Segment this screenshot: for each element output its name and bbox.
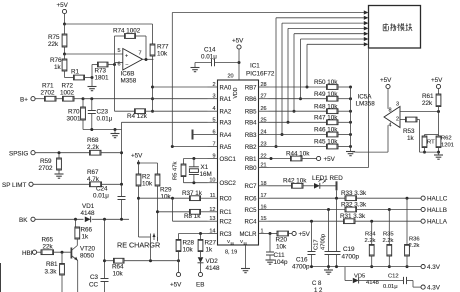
node RA1 branch: [151, 97, 154, 100]
crystal X1 16M: [189, 159, 212, 183]
ground R1 junction: [88, 78, 97, 91]
resistor R81 3.3k: [45, 252, 65, 292]
pin 6 RA4: [208, 130, 232, 139]
svg-text:IC6B: IC6B: [121, 71, 135, 78]
op-amp U3 IC5A LM358: [356, 94, 401, 129]
resistor R64 10k: [105, 258, 181, 277]
svg-text:RC0: RC0: [220, 197, 233, 203]
pin 7 RA5: [208, 142, 232, 151]
svg-text:18: 18: [261, 181, 267, 187]
ground bottom rail: [324, 267, 333, 275]
resistor R61 22k: [422, 93, 441, 135]
svg-text:5: 5: [212, 117, 215, 123]
svg-text:14: 14: [209, 229, 215, 235]
svg-text:C11: C11: [274, 252, 286, 259]
svg-text:0.01μ: 0.01μ: [383, 284, 398, 290]
svg-text:R73: R73: [95, 68, 107, 75]
bus wire RB0/21 from module bottom: [269, 48, 369, 168]
svg-text:RC4: RC4: [244, 220, 257, 226]
power +5V (R44): [317, 156, 336, 163]
svg-text:EB: EB: [196, 282, 204, 289]
svg-text:SPSIG: SPSIG: [9, 150, 28, 157]
svg-text:R59: R59: [40, 158, 52, 165]
svg-text:VD2: VD2: [206, 258, 219, 265]
resistor R45 10k: [269, 139, 353, 149]
wire OSC2 row: [184, 181, 208, 184]
resistor R1: [65, 69, 93, 80]
pin 27 RB6: [245, 94, 269, 103]
wire RA3 row: [122, 122, 208, 129]
node +5V rail top-left: [63, 23, 66, 26]
svg-text:7: 7: [212, 142, 215, 148]
svg-text:RA2: RA2: [220, 110, 232, 116]
svg-text:C 8: C 8: [312, 281, 322, 287]
capacitor C17 4700p: [314, 210, 333, 269]
wire B+ row to RA1: [83, 97, 208, 100]
svg-text:1: 1: [261, 229, 264, 235]
bar mark LED end: [336, 181, 338, 198]
svg-text:C24: C24: [96, 186, 108, 193]
pin 16 RC5: [244, 205, 268, 214]
svg-text:13: 13: [209, 216, 215, 222]
svg-text:RC3: RC3: [220, 232, 233, 238]
svg-text:RB5: RB5: [245, 110, 257, 116]
svg-text:4148: 4148: [81, 210, 96, 217]
svg-text:C16: C16: [296, 257, 308, 264]
pin 14 RC3: [208, 229, 233, 238]
wire RA3 column: [120, 130, 123, 185]
svg-text:2.2k: 2.2k: [365, 238, 376, 244]
svg-text:ss: ss: [244, 242, 248, 246]
node R29 to RC1 row: [156, 210, 159, 213]
wire IC5A pin4 ground: [352, 125, 388, 152]
node C3 rail: [103, 259, 106, 262]
wire left edge mark: [0, 263, 2, 292]
svg-text:1201: 1201: [441, 143, 454, 149]
svg-text:1 2: 1 2: [314, 288, 323, 292]
svg-text:MCLR: MCLR: [239, 232, 257, 238]
svg-text:RB2: RB2: [245, 145, 257, 151]
svg-text:+5V: +5V: [131, 153, 143, 160]
svg-text:1k: 1k: [206, 247, 214, 254]
svg-text:11: 11: [210, 193, 216, 199]
svg-text:R28: R28: [183, 240, 195, 247]
svg-text:VDD: VDD: [233, 87, 239, 98]
svg-text:C23: C23: [97, 109, 109, 116]
terminal 4.3V (lower): [421, 285, 441, 292]
svg-text:4148: 4148: [206, 265, 221, 272]
capacitor C12 0.01u: [383, 274, 421, 291]
svg-text:+5V: +5V: [232, 38, 244, 45]
node op-amp IC6B inverting input: [113, 63, 116, 66]
capacitor C24 0.01u: [93, 184, 126, 219]
wire op-amp pin5 input: [65, 53, 123, 55]
pin 3 RA1: [208, 94, 232, 103]
svg-text:28: 28: [261, 82, 267, 88]
wire pin6 node column: [115, 36, 123, 111]
terminal HBK: [22, 250, 41, 257]
resistor R71 2702: [41, 83, 63, 102]
svg-text:RB1: RB1: [245, 157, 257, 163]
svg-text:RB3: RB3: [245, 133, 257, 139]
wire RC3 row: [179, 232, 208, 235]
svg-text:RA0: RA0: [220, 85, 232, 91]
jumper 1+1 recharge: [139, 198, 158, 261]
pin 13 RC2: [208, 216, 233, 225]
svg-text:2702: 2702: [39, 165, 54, 172]
svg-text:21: 21: [261, 163, 267, 169]
svg-text:HALLA: HALLA: [427, 219, 448, 226]
resistor R73 1801: [92, 62, 115, 81]
pin 2 RA0: [208, 82, 232, 91]
power +5V (bottom): [170, 261, 182, 289]
resistor R37 1k: [182, 190, 208, 201]
resistor R2 10k: [136, 174, 153, 199]
pin 21 RB0: [245, 163, 269, 172]
svg-text:12: 12: [209, 207, 215, 213]
svg-text:26: 26: [261, 106, 267, 112]
svg-text:10: 10: [209, 178, 215, 184]
svg-text:R64: R64: [112, 264, 124, 271]
svg-text:16: 16: [261, 205, 267, 211]
wire +5V rail to R77 column: [65, 24, 153, 44]
pin 17 RC6: [244, 193, 268, 202]
terminal HALLA: [421, 219, 448, 226]
bus wire RB4/25 to module: [287, 26, 369, 124]
resistor R62 1201: [436, 135, 454, 154]
svg-text:RA3: RA3: [220, 121, 232, 127]
resistor R67 4.7k: [87, 169, 123, 187]
svg-text:7: 7: [139, 51, 142, 57]
resistor R77 10k (pull-up): [150, 44, 169, 60]
power +5V (MCLR): [292, 231, 311, 238]
svg-text:2: 2: [212, 82, 215, 88]
resistor R42 10k: [269, 178, 314, 189]
resistor R32 3.3k: [269, 202, 422, 212]
resistor R46 10k: [269, 127, 353, 137]
resistor R68 2.2k: [87, 137, 122, 155]
svg-text:RB6: RB6: [245, 97, 257, 103]
svg-text:B+: B+: [20, 97, 28, 104]
svg-text:R27: R27: [205, 240, 217, 247]
resistor R8 1k: [158, 209, 208, 220]
svg-text:4.3V: 4.3V: [427, 264, 441, 271]
svg-text:8: 8: [389, 108, 392, 114]
node RA0 branch: [151, 86, 154, 89]
bus wire RB2/23 to module: [275, 16, 369, 148]
svg-text:22: 22: [261, 154, 267, 160]
svg-text:IC1: IC1: [250, 63, 260, 70]
resistor R70 3001: [67, 99, 86, 130]
svg-text:RC6: RC6: [244, 197, 257, 203]
resistor R66 1k: [75, 219, 93, 243]
IC U1 PIC16F72: [218, 63, 275, 246]
svg-text:4700p: 4700p: [342, 254, 360, 261]
svg-text:1k: 1k: [407, 135, 415, 142]
capacitor C23 0.01u: [88, 99, 113, 130]
svg-text:RB0: RB0: [245, 166, 257, 172]
svg-text:R53: R53: [403, 128, 415, 135]
diode VD2 4148: [198, 257, 221, 272]
svg-text:24: 24: [261, 130, 267, 136]
resistor R33 3.3k: [269, 190, 422, 200]
svg-text:R67: R67: [87, 169, 99, 176]
svg-text:R20: R20: [276, 237, 288, 244]
transistor VT20 8050: [71, 244, 95, 292]
pin 24 RB3: [245, 130, 269, 139]
svg-text:R35: R35: [383, 232, 394, 238]
svg-text:C3: C3: [90, 274, 99, 281]
svg-text:1801: 1801: [95, 75, 110, 82]
bar mark RA4: [193, 130, 208, 140]
svg-text:RB4: RB4: [245, 121, 257, 127]
svg-text:R68: R68: [87, 137, 99, 144]
svg-text:IC5A: IC5A: [358, 94, 373, 101]
resistor R74 1002 (feedback): [113, 28, 146, 60]
svg-text:+5V: +5V: [431, 77, 443, 84]
svg-text:2.2k: 2.2k: [383, 238, 394, 244]
svg-text:RT: RT: [427, 140, 435, 146]
resistor R49 10k: [269, 91, 353, 101]
svg-text:6: 6: [212, 130, 215, 136]
svg-text:4700p: 4700p: [292, 264, 310, 271]
svg-text:2702: 2702: [41, 90, 56, 97]
resistor R48 10k: [269, 103, 353, 113]
svg-text:R1: R1: [71, 69, 80, 76]
svg-text:RA4: RA4: [220, 133, 232, 139]
node R75/R76 junction: [63, 53, 66, 56]
capacitor C11 104p: [266, 234, 289, 267]
bus wire RB6/27 to module: [299, 37, 368, 100]
resistor R47 10k: [269, 115, 353, 125]
svg-text:R75: R75: [48, 34, 60, 41]
resistor R27 1k: [198, 234, 216, 258]
svg-text:R65: R65: [42, 237, 54, 244]
terminal BK: [19, 217, 84, 224]
terminal 4.3V (upper): [421, 264, 441, 271]
svg-text:+5V: +5V: [299, 231, 311, 238]
svg-text:R62: R62: [441, 136, 452, 142]
resistor R29 10k: [139, 163, 173, 212]
resistor R72 1002: [60, 83, 83, 102]
pin 10 OSC2: [208, 178, 237, 187]
ground Vss pins 8 19: [225, 245, 250, 273]
svg-text:0.01μ: 0.01μ: [97, 116, 113, 123]
pin 1 MCLR: [239, 229, 268, 238]
wire RC2 row: [173, 220, 208, 222]
svg-text:10k: 10k: [113, 271, 124, 278]
svg-text:RB7: RB7: [245, 85, 257, 91]
svg-text:+5V: +5V: [170, 282, 182, 289]
power +5V (chip VDD): [232, 38, 244, 63]
svg-text:R70: R70: [68, 109, 80, 116]
svg-text:R77: R77: [157, 44, 169, 51]
svg-text:VD5: VD5: [354, 274, 365, 280]
terminal EB: [196, 268, 204, 289]
pin 25 RB4: [245, 117, 269, 126]
svg-text:3: 3: [212, 94, 215, 100]
svg-text:17: 17: [261, 193, 267, 199]
svg-text:R66: R66: [81, 227, 93, 234]
capacitor C19 4700p: [333, 198, 360, 268]
svg-text:R34: R34: [365, 232, 376, 238]
svg-text:R76: R76: [50, 57, 62, 64]
svg-text:23: 23: [261, 142, 267, 148]
svg-text:10k: 10k: [142, 181, 153, 188]
bus wire RB7/28 to module: [306, 42, 369, 88]
svg-text:BK: BK: [19, 217, 28, 224]
svg-text:PIC16F72: PIC16F72: [246, 71, 275, 78]
wire op-amp IC6B output: [143, 58, 154, 61]
resistor R35 2.2k: [383, 210, 394, 269]
svg-text:1k: 1k: [82, 234, 90, 241]
resistor R20 10k: [276, 231, 293, 250]
svg-text:1002: 1002: [60, 90, 75, 97]
bus wire RB3/24 to module: [281, 21, 369, 136]
svg-text:0.01μ: 0.01μ: [93, 193, 109, 200]
svg-text:4: 4: [212, 106, 215, 112]
svg-text:4.3V: 4.3V: [427, 285, 441, 292]
svg-text:4700p: 4700p: [321, 234, 327, 250]
svg-text:R29: R29: [160, 187, 172, 194]
op-amp U2 IC6B M358: [118, 48, 143, 85]
svg-text:+5V: +5V: [57, 2, 69, 9]
resistor R75 22k: [48, 24, 67, 54]
resistor R34 2.2k: [365, 221, 377, 268]
svg-text:15: 15: [261, 216, 267, 222]
svg-text:22k: 22k: [48, 41, 59, 48]
capacitor C16 4700p: [292, 221, 316, 270]
svg-text:VT20: VT20: [80, 246, 96, 253]
svg-text:3001: 3001: [67, 116, 82, 123]
svg-text:RC2: RC2: [220, 220, 233, 226]
resistor R59 2702: [39, 153, 62, 174]
ground pull-up bus: [346, 152, 355, 156]
wire RC0-RC2 tie column: [172, 198, 174, 221]
svg-text:RC7: RC7: [244, 184, 257, 190]
svg-text:R61: R61: [422, 93, 434, 100]
pin 5 RA3: [208, 117, 232, 126]
wire IC5A pin3 input: [400, 110, 440, 113]
svg-text:1k: 1k: [54, 64, 62, 71]
svg-text:10k: 10k: [161, 194, 172, 201]
ground R59: [55, 174, 64, 178]
svg-text:CC: CC: [89, 282, 99, 289]
terminal SP LIMT: [2, 182, 90, 189]
pin 4 RA2: [208, 106, 232, 115]
ground divider rail: [111, 130, 120, 138]
svg-text:R2: R2: [142, 174, 151, 181]
node R2 to RC0 row: [137, 197, 140, 200]
diode VD5 4148: [353, 274, 404, 287]
wire pull-up common bus: [350, 87, 352, 151]
node R1/R73 junction: [91, 76, 94, 79]
svg-text:X1: X1: [201, 164, 209, 171]
svg-text:VD1: VD1: [82, 203, 95, 210]
bus wire RB5/26 to module: [293, 32, 369, 113]
svg-text:8, 19: 8, 19: [225, 250, 237, 256]
svg-text:RC5: RC5: [244, 208, 257, 214]
wire RT/R62 bottom: [420, 151, 439, 153]
svg-text:SP LIMT: SP LIMT: [2, 182, 27, 189]
svg-text:C14: C14: [204, 47, 216, 54]
pin 28 RB7: [245, 82, 269, 91]
svg-text:C17: C17: [314, 239, 320, 250]
svg-text:9: 9: [212, 154, 215, 160]
power +5V (mid left): [131, 153, 143, 175]
svg-text:25: 25: [261, 117, 267, 123]
node R70 tap: [82, 97, 85, 100]
wire 4.3V rail: [312, 266, 422, 268]
svg-text:M358: M358: [121, 78, 137, 85]
terminal B+: [20, 97, 45, 104]
wire RC0 row: [139, 197, 190, 200]
pin 23 RB2: [245, 142, 269, 151]
ground RT/R62: [434, 152, 443, 159]
svg-text:C19: C19: [343, 246, 355, 253]
power +5V (R61): [431, 77, 443, 94]
svg-text:OSC2: OSC2: [220, 181, 237, 187]
svg-text:2: 2: [396, 117, 399, 123]
text RE CHARGR: [117, 241, 160, 250]
svg-text:3: 3: [396, 102, 399, 108]
resistor R36 2.2k: [405, 198, 420, 268]
wire OSC1 row: [184, 157, 208, 160]
pin 26 RB5: [245, 106, 269, 115]
wire lower 4.3V rail: [345, 267, 352, 281]
svg-text:4: 4: [389, 123, 392, 129]
svg-text:LED1 RED: LED1 RED: [312, 175, 343, 182]
terminal SPSIG: [9, 150, 90, 157]
svg-text:10k: 10k: [276, 244, 287, 251]
capacitor C14 0.01u: [195, 47, 239, 67]
svg-text:+: +: [125, 54, 128, 60]
LED LED1 RED: [312, 175, 343, 189]
resistor R53 1k: [400, 117, 420, 152]
svg-text:HALLB: HALLB: [427, 207, 447, 214]
pin 9 OSC1: [208, 154, 237, 163]
resistor R5 47k: [173, 159, 186, 183]
resistor R28 10k: [176, 234, 194, 261]
svg-text:3.3k: 3.3k: [45, 269, 58, 276]
svg-text:6: 6: [118, 62, 121, 68]
power +5V (top left): [57, 2, 69, 24]
pin 18 RC7: [244, 181, 268, 190]
svg-text:LM358: LM358: [356, 101, 376, 108]
wire VDD pin 20: [228, 61, 241, 80]
svg-text:OSC1: OSC1: [220, 157, 237, 163]
bus wire RA5 to module: [172, 10, 368, 146]
resistor R4 12k: [115, 109, 153, 120]
resistor R65 22k: [41, 237, 71, 255]
wire R36 column to lower rail: [0, 0, 1, 1]
svg-text:22k: 22k: [422, 100, 433, 107]
svg-text:C12: C12: [388, 274, 399, 280]
svg-text:R5 47k: R5 47k: [173, 162, 179, 180]
pin 12 RC1: [208, 207, 233, 216]
wire MCLR row: [269, 232, 278, 235]
svg-text:RA1: RA1: [220, 97, 232, 103]
pin 15 RC4: [244, 216, 268, 225]
svg-text:RC1: RC1: [220, 210, 233, 216]
thermistor RT: [422, 135, 438, 154]
power +5V (IC5A): [380, 77, 392, 109]
svg-text:104p: 104p: [274, 259, 289, 266]
svg-text:+5V: +5V: [380, 77, 392, 84]
svg-text:RA5: RA5: [220, 145, 232, 151]
svg-text:R71: R71: [42, 83, 54, 90]
resistor R31 3.3k: [269, 213, 422, 223]
